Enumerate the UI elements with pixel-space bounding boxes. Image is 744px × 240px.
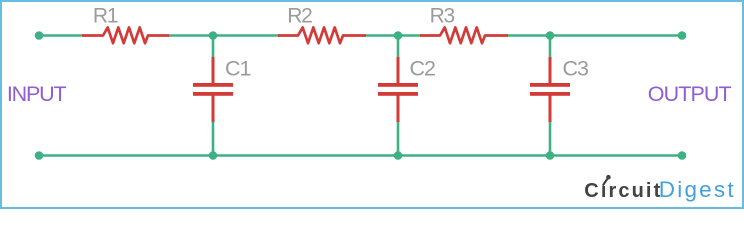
svg-text:OUTPUT: OUTPUT <box>648 82 732 106</box>
node output top <box>678 31 687 40</box>
svg-text:C3: C3 <box>563 57 590 81</box>
capacitor C1 <box>193 57 233 122</box>
wire bottom rail <box>39 154 682 157</box>
node C top junction <box>546 31 555 40</box>
wire C3 bottom stub <box>549 121 552 156</box>
wire C2 top stub <box>397 36 400 59</box>
wire top rail segment 1 <box>39 34 83 37</box>
node input bottom <box>35 151 44 160</box>
svg-text:R2: R2 <box>287 5 312 28</box>
wire top rail segment 4 <box>507 34 682 37</box>
node A bottom junction <box>209 151 218 160</box>
resistor R2 <box>278 27 366 43</box>
svg-text:C2: C2 <box>410 57 436 81</box>
wire C1 bottom stub <box>212 121 215 156</box>
node A top junction <box>209 31 218 40</box>
svg-text:R3: R3 <box>430 5 455 28</box>
capacitor C2 <box>378 57 418 122</box>
wire top rail segment 2 <box>168 34 279 37</box>
wire C1 top stub <box>212 36 215 59</box>
svg-text:C1: C1 <box>225 57 251 81</box>
node input top <box>35 31 44 40</box>
svg-text:Cırcuit: Cırcuit <box>584 180 662 202</box>
svg-text:R1: R1 <box>93 5 118 28</box>
node B bottom junction <box>394 151 403 160</box>
svg-text:Digest: Digest <box>659 177 736 202</box>
node C bottom junction <box>546 151 555 160</box>
capacitor C3 <box>530 57 570 122</box>
CircuitDigest logo <box>584 175 735 202</box>
resistor R3 <box>420 27 508 43</box>
wire top rail segment 3 <box>365 34 421 37</box>
node output bottom <box>678 151 687 160</box>
node B top junction <box>394 31 403 40</box>
wire C2 bottom stub <box>397 121 400 156</box>
wire C3 top stub <box>549 36 552 59</box>
resistor R1 <box>82 27 169 43</box>
svg-text:INPUT: INPUT <box>7 82 67 106</box>
